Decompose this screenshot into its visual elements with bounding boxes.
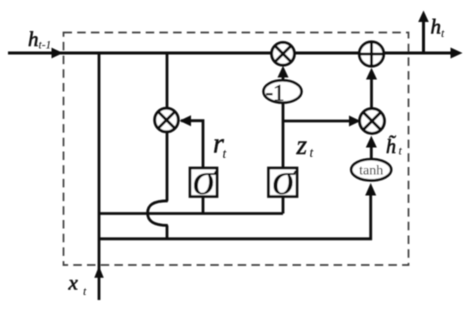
arrowhead on main line entering box: [52, 48, 64, 59]
multiplier node: reset gate (x): [155, 108, 179, 132]
svg-text:h: h: [28, 27, 39, 51]
svg-text:h̃: h̃: [386, 134, 396, 158]
label h-tilde_t: [386, 134, 403, 158]
dashed cell boundary box: [64, 33, 409, 266]
arrowhead into adder: [366, 68, 377, 80]
multiplier node: (1-z) on main line (x): [272, 42, 295, 65]
svg-text:σ: σ: [193, 153, 218, 204]
wire: r_t feedback from sigma r to multiplier: [181, 121, 203, 169]
arrowhead into update multiplier: [349, 116, 361, 127]
label h_{t-1}: [28, 27, 51, 52]
svg-text:h: h: [431, 15, 442, 39]
wire: vertical branch to multiplier (x=167) upper part: [166, 53, 169, 110]
wire: -1 ellipse to top multiplier: [282, 70, 285, 81]
wire: z_t vertical from sigma z to -1 ellipse: [282, 103, 285, 169]
label z_t: [296, 130, 315, 160]
svg-text:t-1: t-1: [39, 40, 52, 52]
label r_t: [213, 129, 228, 162]
svg-text:tanh: tanh: [359, 163, 383, 178]
arrowhead into update multiplier from tanh: [366, 136, 377, 148]
sigma gate z (box): [269, 153, 298, 204]
label x_t: [68, 271, 88, 299]
svg-text:z: z: [296, 130, 308, 160]
label h_t (output): [431, 15, 446, 41]
wire: vertical below multiplier to hop arc: [166, 130, 169, 201]
arrowhead h_t output: [418, 11, 429, 23]
wire: vertical below hop to bottom bus: [166, 225, 169, 239]
arrowhead into reset multiplier: [180, 115, 192, 126]
sigma gate r (box): [190, 153, 218, 204]
svg-text:1: 1: [273, 81, 285, 106]
wire: sigma r bottom stub: [202, 196, 205, 214]
wire: h_t output branch: [422, 20, 425, 53]
arrowhead at right end of main line: [451, 48, 463, 59]
-1 ellipse: [264, 80, 302, 106]
wire: update multiplier to adder: [370, 79, 373, 109]
wire: sigma z bottom stub: [282, 196, 285, 214]
wire: main h line (h_{t-1} to h_t): [8, 52, 458, 55]
wire hop arc over horizontal line: [148, 201, 168, 226]
wire: horizontal bus 2 (y=238.8) feeding tanh: [99, 194, 371, 239]
wire: z_t branch to update multiplier: [283, 120, 358, 123]
wire: x_t vertical line (x=99): [98, 53, 101, 300]
svg-text:x: x: [68, 271, 79, 295]
tanh ellipse: [351, 159, 391, 180]
arrowhead into top multiplier: [278, 66, 289, 78]
wire: horizontal bus 1 (y=213.5) feeding sigma gates: [99, 212, 283, 215]
multiplier node: update gate (x): [360, 109, 385, 134]
svg-text:σ: σ: [272, 153, 297, 204]
adder node (+): [359, 42, 383, 66]
wire: tanh to update multiplier: [370, 147, 373, 160]
arrowhead x_t input: [94, 266, 103, 278]
arrowhead into tanh: [365, 183, 376, 196]
